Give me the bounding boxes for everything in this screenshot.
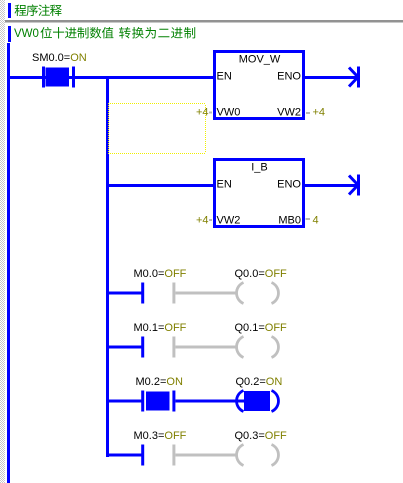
svg-text:Q0.1=OFF: Q0.1=OFF [235, 322, 288, 334]
svg-text:VW0: VW0 [14, 28, 39, 40]
wire contact to coil Q0.1 [176, 346, 237, 349]
program comment title 程序注释 [15, 4, 62, 16]
value +4 at VW2 output [306, 107, 325, 119]
operand tooltip dotted box [108, 103, 206, 154]
svg-text:M0.1=OFF: M0.1=OFF [134, 322, 187, 334]
network comment marker bar [8, 26, 11, 42]
svg-text:M0.2=ON: M0.2=ON [136, 376, 183, 388]
svg-text:Q0.3=OFF: Q0.3=OFF [235, 430, 288, 442]
svg-text:VW0: VW0 [217, 107, 241, 119]
contact M0.2 [136, 376, 183, 412]
svg-text:M0.0=OFF: M0.0=OFF [134, 268, 187, 280]
program comment marker bar [8, 3, 11, 18]
svg-text:EN: EN [217, 179, 232, 191]
value +4 at VW0 input [196, 107, 212, 119]
wire stub rung M0.2 [109, 400, 142, 403]
svg-text:EN: EN [217, 71, 232, 83]
I_B ENO output wire [305, 184, 358, 187]
left power rail [7, 43, 10, 483]
MOV_W box U1 [215, 52, 304, 119]
svg-text:VW2: VW2 [277, 107, 301, 119]
wire stub rung M0.1 [109, 346, 142, 349]
svg-text:+4: +4 [196, 107, 209, 119]
coil Q0.1 [235, 322, 288, 358]
branch vertical rail [106, 76, 109, 457]
separator line [5, 20, 403, 23]
MOV_W ENO output wire [305, 76, 358, 79]
svg-text:MB0: MB0 [278, 215, 301, 227]
I_B EN wire [106, 184, 213, 187]
svg-text:ENO: ENO [277, 71, 301, 83]
svg-text:Q0.2=ON: Q0.2=ON [236, 376, 283, 388]
svg-text:ENO: ENO [277, 179, 301, 191]
value 4 at MB0 output [306, 215, 319, 227]
svg-text:+4: +4 [196, 215, 209, 227]
svg-text:I_B: I_B [251, 162, 268, 174]
svg-text:M0.3=OFF: M0.3=OFF [134, 430, 187, 442]
contact M0.1 [134, 322, 187, 358]
contact SM0.0 [32, 52, 87, 88]
wire stub rung M0.3 [109, 454, 142, 457]
svg-text:Q0.0=OFF: Q0.0=OFF [235, 268, 288, 280]
network comment text VW0 conversion [14, 27, 195, 40]
left margin hatch strip [0, 0, 5, 483]
svg-text:VW2: VW2 [217, 215, 241, 227]
open arrow 2 [349, 175, 360, 196]
wire contact to coil Q0.2 [176, 400, 245, 403]
I_B box U2 [215, 160, 304, 227]
svg-text:4: 4 [313, 215, 319, 227]
rung 1 wire rail to MOV_W EN [9, 76, 213, 79]
open arrow 1 [349, 67, 360, 88]
coil Q0.2 [236, 376, 283, 412]
coil Q0.0 [235, 268, 288, 304]
value +4 at I_B VW2 input [196, 215, 212, 227]
svg-text:+4: +4 [313, 107, 326, 119]
coil Q0.3 [235, 430, 288, 466]
svg-text:MOV_W: MOV_W [239, 54, 281, 66]
contact M0.0 [134, 268, 187, 304]
wire contact to coil Q0.0 [176, 292, 237, 295]
contact M0.3 [134, 430, 187, 466]
svg-text:SM0.0=ON: SM0.0=ON [32, 52, 87, 64]
wire contact to coil Q0.3 [176, 454, 237, 457]
wire stub rung M0.0 [109, 292, 142, 295]
